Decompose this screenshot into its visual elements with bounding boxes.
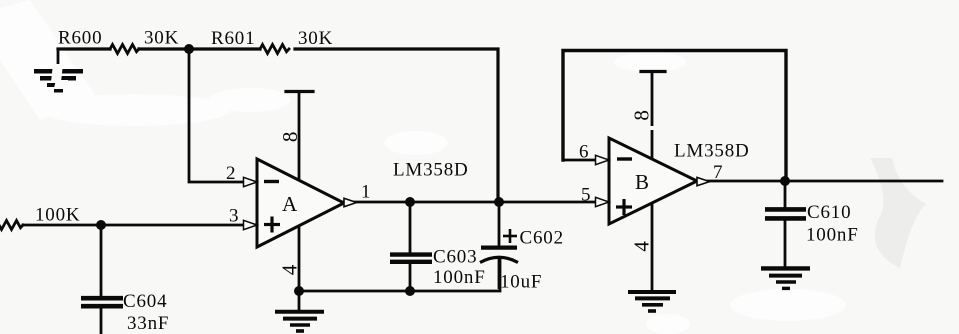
- ground G4 (C610): [761, 268, 810, 288]
- svg-text:6: 6: [579, 142, 589, 163]
- svg-text:R600: R600: [58, 28, 102, 49]
- wire C603 bottom down to bottom rail: [409, 263, 412, 291]
- svg-text:8: 8: [630, 109, 654, 120]
- resistor R601: [260, 45, 289, 54]
- svg-text:4: 4: [630, 240, 654, 251]
- junction node N2 (C602 top): [494, 197, 504, 207]
- power bar A pin8: [286, 90, 313, 93]
- svg-text:30K: 30K: [298, 28, 333, 49]
- power bar B pin8: [641, 70, 665, 73]
- svg-text:2: 2: [226, 163, 236, 184]
- wire node N3 down to C604: [100, 225, 103, 296]
- junction node N3: [96, 220, 106, 230]
- svg-text:30K: 30K: [144, 28, 179, 49]
- op-amp U1B plus sign: [616, 199, 632, 215]
- pin 3 arrowhead: [244, 220, 258, 229]
- svg-text:R601: R601: [211, 28, 255, 49]
- wire node N5 down to C603: [409, 202, 412, 253]
- svg-text:C604: C604: [123, 291, 167, 312]
- wire stub down to ground G1: [57, 49, 60, 64]
- ground G3 (op-amp B pin4): [628, 292, 676, 311]
- svg-text:4: 4: [278, 264, 302, 275]
- wire op-amp B pin4 down to ground: [651, 203, 654, 291]
- svg-text:3: 3: [229, 206, 239, 227]
- ground G2 (op-amp A, below N4): [275, 291, 324, 331]
- svg-text:C602: C602: [520, 228, 564, 249]
- svg-text:B: B: [635, 170, 650, 194]
- svg-text:A: A: [282, 192, 298, 216]
- svg-text:1: 1: [361, 182, 371, 203]
- junction node N4 (A ground): [294, 286, 304, 296]
- wire top-left from ground stub to R600: [58, 47, 110, 50]
- wire output pin1 of A to pin5 of B: [344, 201, 598, 204]
- svg-text:5: 5: [581, 185, 591, 206]
- op-amp U1A minus sign: [264, 180, 279, 183]
- svg-text:8: 8: [278, 131, 302, 142]
- junction node N5 (C603 top): [405, 197, 415, 207]
- svg-text:10uF: 10uF: [500, 272, 542, 293]
- wire R600 to node N1: [139, 47, 189, 50]
- svg-text:C610: C610: [807, 202, 851, 223]
- junction node C603 bottom: [405, 286, 415, 296]
- wire R601 right then down to node N2: [295, 49, 498, 202]
- op-amp U1B triangle: [609, 138, 697, 224]
- pin 7 arrowhead at B output: [697, 177, 710, 185]
- capacitor C610 plates: [765, 209, 806, 218]
- wire op-amp A pin4 down to ground node N4: [298, 225, 301, 291]
- wire pin6 to op-amp B: [563, 159, 597, 162]
- ground G1 (sketchy, top-left): [34, 69, 83, 93]
- wire node N1 down to pin2: [189, 49, 245, 182]
- wire node N6 down to C610: [784, 181, 787, 207]
- wire feedback loop of B: pin6 left-up-right to output: [563, 51, 786, 182]
- pin 1 arrowhead at A output: [344, 198, 357, 206]
- wire op-amp B pin8 power line: [651, 72, 654, 160]
- svg-text:100K: 100K: [35, 205, 80, 226]
- op-amp U1A triangle: [257, 159, 344, 247]
- pin 5 arrowhead: [596, 197, 610, 206]
- op-amp U1A plus sign: [264, 217, 280, 233]
- wire bottom rail N4 to C602: [299, 258, 500, 291]
- svg-text:LM358D: LM358D: [674, 141, 750, 162]
- junction node N1: [184, 44, 194, 54]
- wire C610 bottom to ground: [784, 220, 787, 266]
- op-amp U1B minus sign: [617, 157, 632, 160]
- pin 2 arrowhead: [244, 177, 258, 186]
- plus sign of C602: [503, 229, 517, 243]
- resistor R600: [110, 45, 139, 54]
- pin 6 arrowhead: [596, 155, 610, 164]
- svg-text:33nF: 33nF: [127, 313, 169, 334]
- capacitor C602 plates (polarized): [480, 248, 518, 289]
- wire output pin7 of B to right edge: [697, 180, 942, 183]
- capacitor C603 plates: [390, 255, 432, 262]
- svg-text:100nF: 100nF: [806, 225, 859, 246]
- svg-text:100nF: 100nF: [433, 267, 486, 288]
- svg-text:C603: C603: [433, 247, 477, 268]
- capacitor C604 plates: [81, 298, 123, 306]
- white streak over ground G1: [51, 64, 68, 88]
- resistor R-100K left edge: [0, 221, 23, 230]
- junction node N6 (B output): [780, 176, 790, 186]
- wire op-amp A pin8 power line: [298, 92, 301, 181]
- wire C604 bottom to page edge: [100, 308, 103, 334]
- wire 100K to pin3: [23, 224, 245, 227]
- wire node N1 to R601: [189, 47, 260, 50]
- whiteout break on B pin8 wire: [650, 126, 656, 130]
- svg-text:7: 7: [713, 162, 723, 183]
- wire node N2 down to C602 top: [498, 202, 501, 247]
- svg-text:LM358D: LM358D: [393, 160, 469, 181]
